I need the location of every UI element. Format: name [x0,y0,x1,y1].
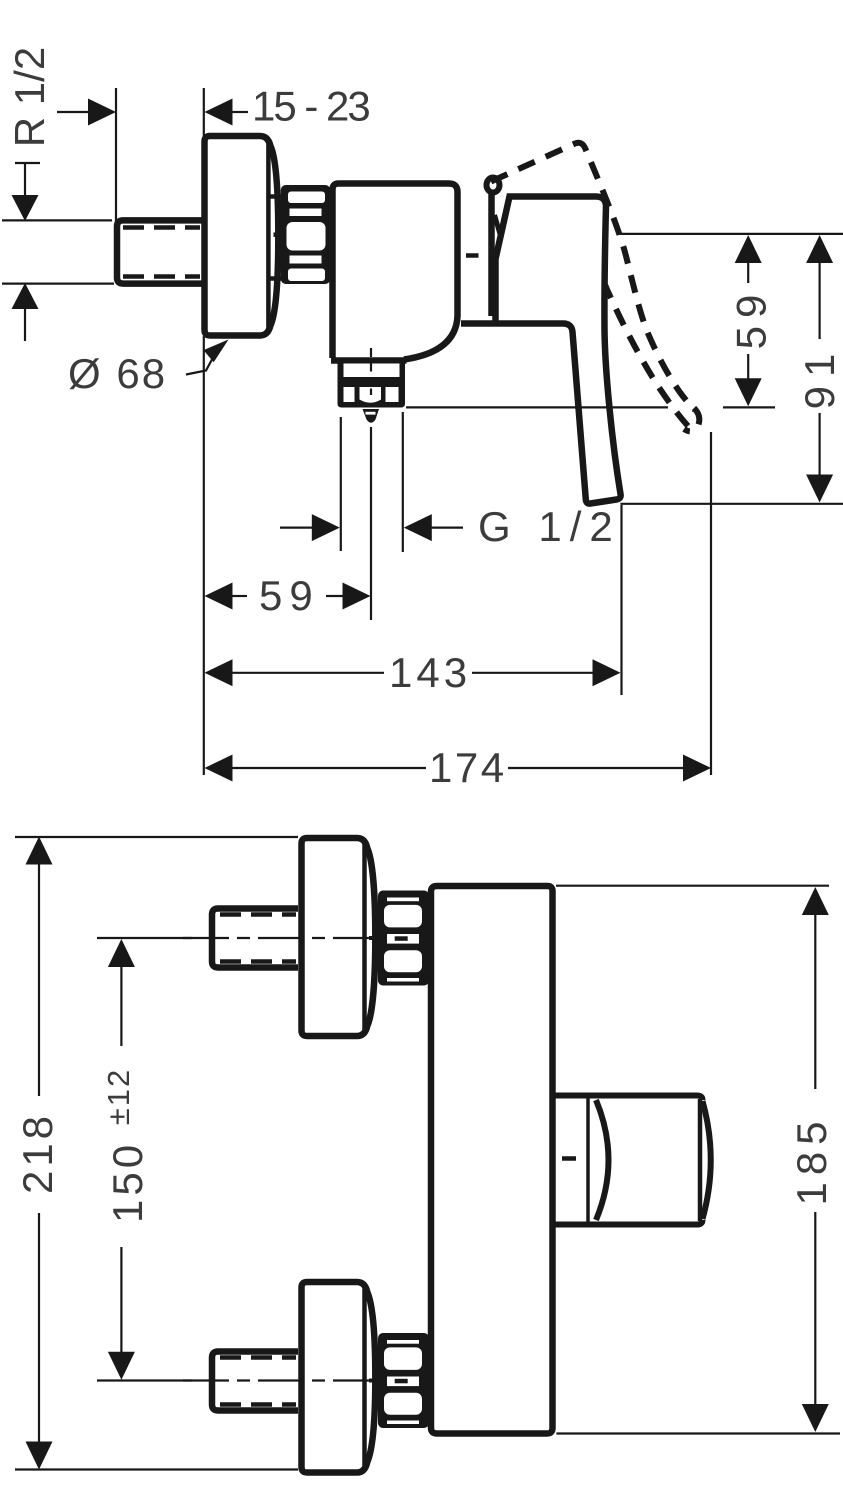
svg-text:Ø 68: Ø 68 [68,350,167,397]
svg-text:185: 185 [788,1114,835,1205]
svg-text:G 1/2: G 1/2 [478,503,621,550]
svg-text:143: 143 [389,649,471,696]
svg-text:91: 91 [796,345,843,410]
svg-text:R 1/2: R 1/2 [6,47,53,147]
svg-text:59: 59 [728,287,775,350]
svg-text:174: 174 [429,744,507,791]
svg-text:59: 59 [259,572,320,619]
svg-text:218: 218 [14,1112,61,1194]
svg-text:15 - 23: 15 - 23 [252,83,369,130]
